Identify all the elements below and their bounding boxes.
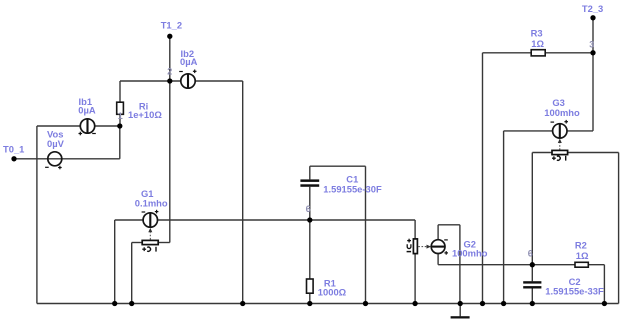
svg-text:T1_2: T1_2 [161,20,182,31]
svg-text:3: 3 [589,40,594,50]
svg-text:1e+10Ω: 1e+10Ω [128,109,162,120]
svg-text:6: 6 [528,249,533,259]
svg-text:1Ω: 1Ω [531,38,544,49]
svg-text:100mho: 100mho [452,248,488,259]
svg-text:1: 1 [118,111,123,121]
svg-text:T2_3: T2_3 [582,3,603,14]
svg-text:100mho: 100mho [544,107,580,118]
svg-text:1000Ω: 1000Ω [318,287,347,298]
svg-text:0µA: 0µA [78,105,96,116]
svg-text:1.59155e-30F: 1.59155e-30F [323,183,382,194]
svg-text:T0_1: T0_1 [3,143,24,154]
svg-text:0µA: 0µA [180,56,198,67]
svg-text:6: 6 [306,204,311,214]
svg-text:1.59155e-33F: 1.59155e-33F [545,285,604,296]
svg-text:2: 2 [167,67,172,77]
svg-text:0µV: 0µV [47,138,65,149]
svg-text:0.1mho: 0.1mho [135,198,168,209]
svg-text:R3: R3 [531,28,543,39]
svg-text:1Ω: 1Ω [576,250,589,261]
